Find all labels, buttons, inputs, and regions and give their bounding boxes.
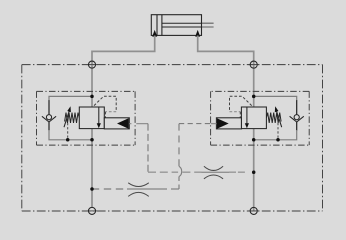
node: CB2 bottom bypass junction: [252, 138, 256, 142]
wire: cylinder rod-end line down-right to node V2 top: [198, 36, 254, 107]
port P3 (bottom left boundary): [86, 210, 97, 212]
CB2 pilot pressure triangle: [217, 118, 229, 129]
CB1 spring drain (dashed): [67, 123, 69, 139]
CB1 internal flow arrow (down): [98, 107, 100, 124]
check valve CB1-CV (ball in seat): [48, 100, 50, 115]
wire: CB2 bottom bypass line: [254, 130, 297, 140]
wire: cylinder cap-end line down-left to node V1 top: [92, 36, 155, 107]
node: CB1 top bypass junction: [90, 95, 94, 99]
spring adjustment arrow of CB2: [276, 110, 281, 127]
CB2 pilot piston box: [216, 118, 241, 129]
pilot line B vertical segment with crossover hop: [178, 124, 180, 167]
spring of CB1 (adjustable): [65, 113, 80, 123]
CB2 internal pilot passage (dashed): [230, 96, 252, 111]
wire: CB2 top bypass line: [254, 96, 297, 101]
pilot line A horizontal to right main line: [148, 171, 178, 173]
wire: CB1 bottom bypass line: [49, 130, 92, 140]
spring of CB2 (adjustable): [266, 113, 281, 123]
CB2 valve body square: [241, 107, 266, 129]
port P2 (top right boundary): [248, 64, 259, 66]
enclosure boundary (outer dash-dot frame): [22, 65, 323, 211]
CB1 internal pilot passage (dashed): [94, 96, 116, 111]
CB2 spring drain (dashed): [277, 123, 279, 139]
CB1 valve body square: [79, 107, 104, 129]
pilot line B horizontal to left main line: [171, 188, 179, 190]
cylinder piston: [157, 15, 162, 36]
counterbalance valve CB2 boundary (right dash-dot box): [211, 91, 310, 145]
CB1 pilot pressure triangle: [117, 118, 129, 129]
node: CB1 drain junction: [66, 138, 70, 142]
cylinder rod inside body: [162, 23, 202, 27]
node: CB1 bottom bypass junction: [90, 138, 94, 142]
pilot line B from CB2 pilot piston (dashed gray): [211, 123, 217, 125]
node: pilot B junction on left main line: [90, 187, 94, 191]
wire: right main line below valve to bottom port: [253, 129, 255, 212]
wire: left main line below valve to bottom port: [91, 129, 93, 208]
counterbalance valve CB1 boundary (left dash-dot box): [37, 91, 136, 145]
pilot line A vertical segment: [147, 124, 149, 173]
orifice O1 on pilot line B: [128, 183, 149, 197]
CB2 internal flow arrow (down): [246, 107, 248, 124]
cylinder cap-end port arrow: [152, 30, 157, 37]
pilot line A from CB1 pilot piston (dashed gray): [129, 123, 148, 125]
check valve CB2-CV (ball in seat): [296, 100, 298, 115]
port P1 (top left boundary): [86, 64, 97, 66]
cylinder C1 body: [151, 15, 201, 36]
node: pilot A junction on right main line: [252, 170, 256, 174]
node: CB2 drain junction: [276, 138, 280, 142]
cylinder rod-end port arrow: [195, 30, 200, 37]
cylinder rod (double line): [162, 23, 214, 27]
port P4 (bottom right boundary): [248, 210, 259, 212]
wire: CB1 top bypass line: [49, 96, 92, 101]
orifice O2 on pilot line A: [204, 166, 223, 179]
node: CB2 top bypass junction: [252, 95, 256, 99]
CB1 pilot piston box: [104, 118, 129, 129]
spring adjustment arrow of CB1: [64, 110, 69, 127]
